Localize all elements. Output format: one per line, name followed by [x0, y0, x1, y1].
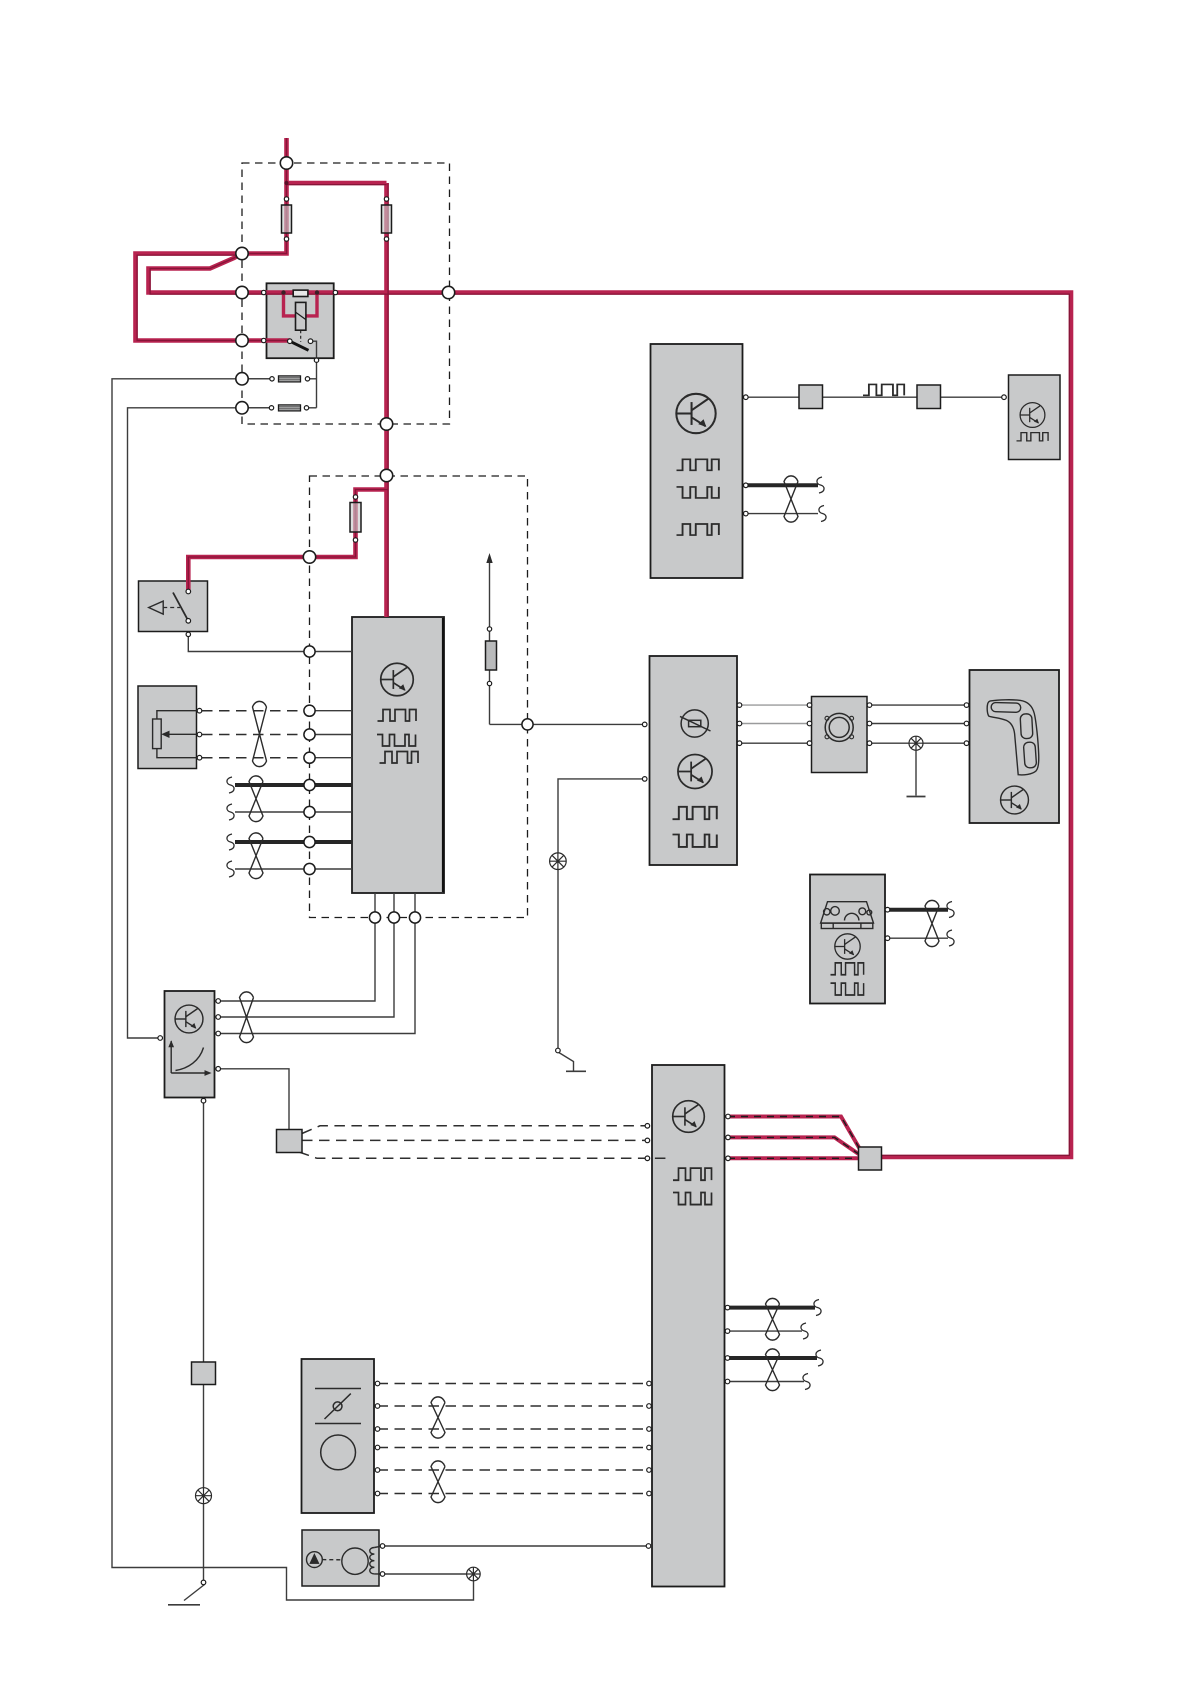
junction dot on red bus right [315, 290, 319, 294]
pulse glyph U1 row1 [378, 710, 417, 722]
pin: curve module out 1 [216, 999, 221, 1004]
pin: U7 headlamp in 3 [647, 1427, 652, 1432]
node: U1 CAN 2 on box2 left [304, 806, 315, 817]
gear-selector handle icon (steering module) [987, 700, 1039, 775]
arrow head pointing left [149, 601, 164, 614]
wire: potentiometer pin2 dashed run [202, 734, 310, 736]
node: main feed on box1 bottom [380, 418, 392, 430]
pin: U7 CAN out 2 [725, 1329, 730, 1334]
wire: relay output to fuses F3/F4 [311, 341, 317, 408]
wire: branch through fuse F5 to switch S1 [188, 490, 386, 593]
twisted pair: cluster pair [925, 900, 939, 946]
lamp: bottom-left indicator [196, 1488, 212, 1504]
wire: cluster thick line 1 [888, 908, 949, 912]
twisted pair: U1 CAN pair 1 [249, 776, 263, 822]
wire: U2 thin data line 2 [746, 513, 818, 515]
wire: relay coil loop [284, 293, 318, 316]
switch bottom contact [186, 619, 191, 624]
relay armature actuator [296, 302, 306, 330]
wire: headlamp unit to U7 dashed line 6 [378, 1493, 650, 1495]
node: F1 output on box1 left [236, 247, 248, 259]
pin: pump out 1 [380, 1544, 385, 1549]
pin: curve module out 4 [216, 1067, 221, 1072]
wire: connector C2 to U7 dashed line 3 [299, 1152, 671, 1158]
wire: curve module pin4 to connector C2 [221, 1069, 290, 1130]
switch top contact [186, 589, 191, 594]
twisted pair: headlamp dashed pair 1 [431, 1397, 445, 1438]
pin: U7 dashed in 1 [645, 1124, 650, 1129]
wiper arrowhead [161, 731, 169, 738]
headlamp levelling unit box [302, 1359, 375, 1513]
wire: connector C2 to U7 dashed line 1 [302, 1126, 648, 1134]
pulse glyph U3 [1017, 433, 1049, 441]
motor M1 box [812, 697, 868, 773]
wire: fuse F3 output, left rail down to pump ground loop [112, 379, 474, 1600]
pin: U2 data out 2 [744, 483, 749, 488]
wire: headlamp unit to U7 dashed line 2 [378, 1405, 650, 1407]
wire: throttle module to motor line 2 (grey) [740, 723, 810, 725]
fuse F1 [282, 205, 292, 233]
break: U7 CAN line 2 [801, 1323, 808, 1339]
pin: fuse F6 top [487, 627, 491, 631]
wire: headlamp unit to U7 dashed line 3 [378, 1428, 650, 1430]
lamp: motor line 3 splice [909, 736, 923, 750]
pin: U7 red CAN 2 [726, 1135, 731, 1140]
break: U1 CAN line 1 [227, 777, 234, 793]
pin: motor out 2 [867, 721, 872, 726]
wire: battery feed into fuse F1 [242, 138, 287, 254]
pin: U7 headlamp in 4 [647, 1445, 652, 1450]
relay actuator diagonal [296, 312, 306, 320]
pin: U7 pump feed [646, 1544, 651, 1549]
wiper lead [164, 733, 200, 735]
pin: headlamp unit out 4 [375, 1445, 380, 1450]
wire: bottom-left ground switch blade [184, 1585, 205, 1601]
wire: U1 bottom pin1 to curve module pin1 [221, 893, 376, 1001]
wire: U7 CAN thick line 3 [728, 1356, 818, 1360]
transistor icon U1 [381, 663, 414, 696]
stripe: F1 output to relay switch [137, 255, 290, 340]
wire: U4 pin2 to lamp and ground switch [558, 779, 645, 1051]
transistor icon curve module [175, 1005, 203, 1033]
wire: U2 data thick line 1 [746, 483, 818, 487]
switch blade [173, 593, 188, 621]
relay coil resistor [293, 290, 308, 296]
pulse glyph cluster row2 (inverted) [831, 983, 864, 995]
pin: headlamp unit out 5 [375, 1468, 380, 1473]
pin: U7 CAN out 3 [725, 1356, 730, 1361]
potentiometer resistor body [153, 719, 162, 749]
connector C1b (serial link) [917, 385, 941, 409]
pulse glyph U1 row3 [380, 752, 419, 764]
transistor icon U2 [676, 394, 715, 433]
pin: U7 dashed in 3 [645, 1156, 650, 1161]
instrument cluster icon [821, 902, 874, 929]
pin: U3 input [1002, 395, 1007, 400]
fuse F2 [382, 205, 392, 233]
node: fuse F3 branch on box1 left [236, 373, 248, 385]
pin: fuse F1 bottom [284, 237, 288, 241]
twisted pair: potentiometer harness [253, 701, 267, 766]
twisted pair: U2 data pair [784, 476, 798, 522]
junction dot at top feed split [284, 181, 288, 185]
pulse glyph U2 row1 [677, 459, 719, 470]
stripe: feed branch across to fuse F2 [287, 184, 387, 186]
pin: curve module out 2 [216, 1015, 221, 1020]
pin: pot pin1 [197, 708, 202, 713]
wire: U1 CAN thick line 3 [235, 840, 352, 844]
pin: cluster out 2 [885, 936, 890, 941]
wire: headlamp unit to U7 dashed line 5 [378, 1469, 650, 1471]
pulse glyph U7 row1 [673, 1168, 712, 1180]
pulse glyph U1 row2 (inverted) [377, 735, 416, 747]
wire: U1 bottom pin3 to curve module pin3 [221, 893, 416, 1034]
switch S1 box (arrow switch) [139, 581, 208, 632]
wire: U1 CAN thick line 1 [235, 783, 352, 787]
wire: resistor top to pin1 [157, 711, 200, 719]
pin: U7 CAN out 1 [725, 1305, 730, 1310]
break: U7 CAN line 1 [814, 1300, 821, 1316]
dark stripe overlays on red wiring [137, 138, 1069, 1155]
ECU U1 right-edge shadow [442, 618, 445, 892]
pin: relay switch input [262, 338, 266, 342]
stripe: main feed down to U1 [387, 183, 389, 617]
node: relay coil feed on box1 left [236, 286, 248, 298]
pin: steering module in 2 [964, 721, 969, 726]
wire: motor to steering module line 3 [870, 742, 967, 744]
headlamp unit icons [315, 1389, 361, 1470]
node: U1 CAN 3 on box2 left [304, 836, 315, 847]
break: cluster line 1 [947, 902, 954, 918]
potentiometer sensor box [138, 686, 197, 769]
wire: main feed through fuse F2 down to ECU U1 [384, 183, 389, 617]
break: U1 CAN line 2 [227, 804, 234, 820]
break: cluster line 2 [947, 930, 954, 946]
characteristic curve icon [169, 1041, 211, 1075]
wire: curve module bottom pin to lamp and switch [203, 1098, 205, 1583]
wire: feed branch across to fuse F2 [287, 181, 387, 186]
wire: switch S1 output to ECU U1 [188, 635, 352, 652]
pin: steering module in 1 [964, 703, 969, 708]
fuse F5 [350, 503, 361, 533]
wire: potentiometer pin1 to U1 (solid run) [310, 710, 353, 712]
pin: fuse F3 right [305, 377, 309, 381]
break: U2 data line 2 [819, 506, 826, 522]
transistor icon U4 [678, 754, 712, 788]
transistor icon steering module [1001, 786, 1029, 814]
node: main feed on box2 top [380, 469, 392, 481]
pin: motor in 2 [807, 721, 812, 726]
dash overlay: U7 red CAN line 1 [728, 1117, 861, 1152]
wire: potentiometer pin3 dashed run [202, 757, 310, 759]
wire: motor to steering module line 2 [870, 723, 967, 725]
pin: headlamp unit out 6 [375, 1491, 380, 1496]
relay switch common contact [288, 339, 293, 344]
ECU U6 box (characteristic-curve module) [165, 991, 215, 1098]
pin: U2 data out 1 [744, 395, 749, 400]
break: U2 data line 1 [817, 477, 824, 493]
pin: U7 dashed in 2 [645, 1138, 650, 1143]
wire: motor to steering module line 1 [870, 704, 967, 706]
node: battery feed on box1 top [280, 157, 292, 169]
pin: motor in 1 [807, 703, 812, 708]
pin: fuse F2 top [384, 197, 388, 201]
fuse F4 [279, 405, 301, 411]
wire: U1 bottom pin2 to curve module pin2 [221, 893, 395, 1017]
pin: U4 motor out 3 [737, 741, 742, 746]
pulse glyph U7 row2 (inverted) [673, 1193, 712, 1205]
break: U7 CAN line 3 [816, 1350, 823, 1366]
wire: pump pin1 to U7 [383, 1545, 653, 1547]
wire: U1 CAN thin line 2 [235, 811, 352, 813]
fuse F3 [279, 376, 301, 382]
pin: relay coil bus output [333, 290, 337, 294]
ECU U3 box (small module far right) [1009, 375, 1061, 460]
transistor icon U3 [1020, 403, 1045, 428]
node: U1 bottom pin3 on box2 bottom [409, 912, 420, 923]
pin: motor out 3 [867, 741, 872, 746]
wire: U7 red CAN line 3 [728, 1156, 872, 1160]
pin: U7 red CAN 3 [726, 1156, 731, 1161]
ground bar bottom-left [168, 1604, 200, 1606]
pin: pot pin3 [197, 755, 202, 760]
pin: headlamp unit out 1 [375, 1381, 380, 1386]
wire: fuse F4 output, rail down to curve module [128, 408, 272, 1038]
pulse glyph cluster row1 [831, 963, 864, 975]
wire: U7 red CAN line 2 [728, 1137, 860, 1155]
twisted pair: curve module triple [240, 992, 254, 1043]
ECU U7 box (main body controller, bottom) [652, 1065, 725, 1587]
wire: node to fuse F3 left lead [242, 378, 272, 380]
pin: relay switch output [314, 358, 318, 362]
stripe: crossover to relay coil bus [150, 254, 1069, 1156]
motor M1 icon [825, 713, 854, 741]
wire: headlamp unit to U7 dashed line 1 [378, 1383, 650, 1385]
dashed connector box 2 (middle) [310, 476, 528, 918]
wire: potentiometer pin1 dashed run [202, 710, 310, 712]
ECU U2 box (top right control module) [651, 344, 743, 578]
wire: pump pin2 to lamp [383, 1573, 468, 1575]
pin: U4 feed input [642, 722, 647, 727]
relay actuator dashed link [300, 330, 302, 342]
pin: U7 red CAN 1 [726, 1114, 731, 1119]
wire: fused feed to throttle module U4 [490, 560, 645, 724]
dash overlay: U7 red CAN line 2 [728, 1137, 860, 1155]
wire: F1 output to relay switch contact [136, 254, 291, 341]
dashed connector box 1 (top) [242, 163, 450, 424]
pin: U7 headlamp in 5 [647, 1468, 652, 1473]
pump unit icons [307, 1546, 383, 1574]
lamp: U4 branch indicator [550, 853, 567, 870]
pump unit box [302, 1530, 379, 1586]
dashed actuator link [163, 607, 180, 609]
node: U1 bottom pin2 on box2 bottom [388, 912, 399, 923]
pin: relay coil input [262, 290, 266, 294]
pin: curve module out 3 [216, 1031, 221, 1036]
pin: fuse F5 top [353, 495, 357, 499]
pulse glyph U4 row1 [673, 807, 717, 819]
throttle-valve icon U4 [680, 710, 711, 737]
wire: U2 pin1 to serial data connectors [746, 396, 1004, 398]
pulse glyph U2 row3 [677, 524, 719, 535]
node: fuse F4 branch on box1 left [236, 402, 248, 414]
pin: U7 headlamp in 6 [647, 1491, 652, 1496]
pin: switch S1 below box [186, 632, 190, 636]
pin: headlamp unit out 2 [375, 1404, 380, 1409]
pin: U4 motor out 1 [737, 703, 742, 708]
pin: curve module left [158, 1036, 163, 1041]
junction dot on red bus left [281, 290, 285, 294]
node: U4 feed on box2 right [522, 719, 533, 730]
dash overlay: U7 red CAN line 3 [728, 1157, 862, 1159]
node: pot pin1 on box2 left [304, 705, 315, 716]
ECU U4 box (throttle control module) [650, 656, 738, 865]
wire: potentiometer pin3 to U1 (solid run) [310, 757, 353, 759]
transistor icon U7 [673, 1101, 705, 1133]
transistor icon instrument cluster [835, 934, 860, 959]
twisted pair: U7 CAN pair 1 [766, 1298, 780, 1340]
pin: curve module bottom [201, 1098, 206, 1103]
node: pot pin2 on box2 left [304, 729, 315, 740]
pulse glyph on serial link between C1a and C1b [863, 384, 904, 395]
wire: U7 CAN thick line 1 [728, 1306, 816, 1310]
wire: fuse F3 right lead [308, 378, 317, 380]
pin: steering module in 3 [964, 741, 969, 746]
pin: fuse F6 bottom [487, 681, 491, 685]
pin: fuse F1 top [284, 197, 288, 201]
wire: ground drop from splice on motor line 3 [915, 750, 917, 796]
ground bar for lamp branch [566, 1070, 586, 1072]
pin: cluster out 1 [885, 907, 890, 912]
pin: motor out 1 [867, 703, 872, 708]
pin: fuse F5 bottom [353, 538, 357, 542]
bottom-left ground switch contact [201, 1580, 206, 1585]
wire: node to fuse F4 left lead [242, 407, 272, 409]
lamp: pump circuit indicator [467, 1567, 481, 1581]
node: U1 bottom pin1 on box2 bottom [369, 912, 380, 923]
relay K1 box [267, 283, 334, 358]
wire: throttle module to motor line 1 (grey) [740, 704, 810, 706]
pin: fuse F3 left [270, 377, 274, 381]
pin: pump out 2 [380, 1572, 385, 1577]
twisted pair: U1 CAN pair 2 [249, 833, 263, 879]
pin: fuse F2 bottom [384, 237, 388, 241]
relay switch blade [290, 341, 309, 350]
node: relay switch feed on box1 left [236, 334, 248, 346]
connector C1a (serial link) [799, 385, 823, 409]
wire: ground switch blade at U4 lamp branch [558, 1052, 574, 1071]
ECU U1 box (central electronic module) [352, 617, 444, 893]
twisted pair: headlamp dashed pair 2 [431, 1461, 445, 1503]
connector C3 (red CAN junction) [859, 1147, 882, 1170]
pulse glyph U4 row2 (inverted) [673, 835, 717, 847]
fuse F6 [486, 641, 497, 670]
node: switch S1 signal on box2 left [304, 646, 315, 657]
break: U1 CAN line 3 [227, 834, 234, 850]
ground bar for motor line 3 [907, 796, 926, 798]
node: red bus on box1 right [442, 286, 454, 298]
ground switch contact for U4 lamp branch [556, 1048, 561, 1053]
stripe: battery feed into fuse F1 [242, 138, 287, 254]
pulse glyph U2 row2 (inverted) [677, 487, 719, 498]
up-arrow continuation at fuse F6 feed [486, 553, 492, 563]
connector C2 (dashed harness) [277, 1130, 303, 1153]
node: pot pin3 on box2 left [304, 752, 315, 763]
connector C4 (bottom-left inline) [192, 1362, 216, 1385]
node: switch feed on box2 left [303, 551, 315, 563]
wire: cluster thin line 2 [888, 937, 949, 939]
wire: throttle module to motor line 3 [740, 742, 810, 744]
twisted pair: U7 CAN pair 2 [766, 1349, 780, 1391]
node: U1 CAN 1 on box2 left [304, 779, 315, 790]
wire: U1 CAN thin line 4 [235, 868, 352, 870]
relay switch normally-open contact [308, 339, 313, 344]
wire: U7 CAN thin line 2 [728, 1330, 803, 1332]
pin: U4 motor out 2 [737, 721, 742, 726]
pin: U7 CAN out 4 [725, 1379, 730, 1384]
wire: F1 output via crossover to relay coil bus and main loop [149, 254, 1072, 1158]
pin: pot pin2 [197, 732, 202, 737]
wire: resistor bottom to pin3 [157, 749, 200, 758]
stripe: branch through fuse F5 [188, 490, 388, 593]
steering module box (gear selector) [970, 670, 1060, 823]
wire: connector C2 to U7 dashed line 2 [302, 1139, 648, 1141]
break: U1 CAN line 4 [227, 861, 234, 877]
wire: potentiometer pin2 to U1 (solid run) [310, 734, 353, 736]
pin: fuse F4 right [304, 406, 308, 410]
pin: fuse F4 left [269, 406, 273, 410]
pin: motor in 3 [807, 741, 812, 746]
break: U7 CAN line 4 [803, 1374, 810, 1390]
wire: headlamp unit to U7 dashed line 4 [378, 1447, 650, 1449]
node: U1 CAN 4 on box2 left [304, 863, 315, 874]
instrument cluster box [810, 875, 885, 1004]
pin: U7 headlamp in 1 [647, 1381, 652, 1386]
wire: fuse F4 right lead [307, 407, 317, 409]
pin: U4 lamp branch [642, 777, 647, 782]
wire: U7 red CAN line 1 [728, 1117, 861, 1152]
pin: U7 headlamp in 2 [647, 1404, 652, 1409]
wire: U7 CAN thin line 4 [728, 1381, 805, 1383]
pin: U2 data out 3 [744, 511, 749, 516]
pin: headlamp unit out 3 [375, 1427, 380, 1432]
